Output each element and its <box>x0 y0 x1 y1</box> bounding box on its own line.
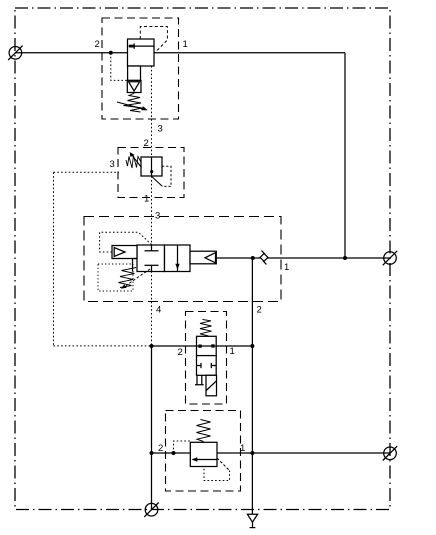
node junction comp5 pilot tap <box>172 451 176 455</box>
svg-text:3: 3 <box>110 159 115 170</box>
node junction x=345 on port 1 line <box>343 256 347 260</box>
comp5 dashed enclosure <box>166 411 241 492</box>
comp1 internal flow line <box>129 45 155 47</box>
comp3 left lower stub <box>133 259 138 272</box>
svg-text:2: 2 <box>158 443 163 454</box>
comp3 body left square <box>137 245 165 272</box>
comp2 poppet stem line through body <box>151 157 153 176</box>
measuring point diamond <box>260 251 268 265</box>
wire vertical x=151.5 down to bottom port <box>151 346 153 510</box>
comp1 stem box <box>128 66 141 80</box>
tank arrow bottom x=252.4 (open triangle down) <box>247 514 257 522</box>
node junction x=252.4 on port 1 line <box>251 256 255 260</box>
svg-text:4: 4 <box>156 305 161 316</box>
comp3 body right square <box>165 245 191 272</box>
comp3 spring arrow (dashed shaft) <box>126 269 150 286</box>
comp1 pilot dashed line (top loop) <box>140 27 167 53</box>
comp1 dashed enclosure <box>102 18 179 119</box>
svg-text:1: 1 <box>240 443 245 454</box>
comp5 right pilot dotted loop <box>217 458 230 471</box>
wire vertical x=252.4 down <box>251 258 253 514</box>
wire comp1 out to right <box>154 52 345 54</box>
node junction comp4 port 2 <box>150 344 154 348</box>
comp1 drain dotted L <box>111 53 128 80</box>
comp4 tank stub below <box>195 375 204 384</box>
wire vertical x=345 <box>344 53 346 258</box>
svg-text:2: 2 <box>257 305 262 316</box>
comp3 dashed enclosure <box>84 217 281 302</box>
comp2 dashed enclosure <box>118 148 184 198</box>
comp5 left pilot dotted <box>174 441 191 453</box>
comp2 pilot dashed loop right <box>162 166 171 186</box>
comp1 poppet box with triangle <box>127 80 141 92</box>
comp2 body <box>141 157 162 176</box>
comp3 top-left pilot dotted <box>100 232 152 252</box>
port (right lower) <box>383 446 397 460</box>
comp4 dashed enclosure <box>186 312 227 405</box>
comp2 diagonal link <box>152 177 162 187</box>
comp3 right pilot box with triangle <box>190 251 216 264</box>
svg-text:3: 3 <box>158 124 163 135</box>
comp4 spring top <box>200 320 212 337</box>
comp1 spring (zigzag) <box>124 93 143 112</box>
port (right upper) <box>383 251 397 265</box>
svg-text:1: 1 <box>230 346 235 357</box>
svg-text:1: 1 <box>183 39 188 50</box>
comp2 spring <box>126 156 141 169</box>
comp2 spring adjust arrow <box>132 155 142 168</box>
wire main supply P left, y=52.8 <box>15 52 128 54</box>
comp3 left square blocked T bottom <box>145 264 159 266</box>
node junction comp5 port 2 line <box>150 451 154 455</box>
dotted drain horizontal y=345.9 <box>54 345 152 347</box>
node junction on supply line at comp1 port 2 <box>109 51 113 55</box>
comp3 left pilot box with triangle <box>112 246 137 259</box>
wire y=258 to right port <box>216 257 390 259</box>
svg-text:2: 2 <box>144 138 149 149</box>
wire y=453 comp5 line <box>152 452 391 454</box>
svg-text:1: 1 <box>284 262 289 273</box>
comp1 body <box>128 39 155 66</box>
comp4 seat arrows <box>198 345 201 348</box>
svg-text:2: 2 <box>178 347 183 358</box>
svg-text:1: 1 <box>144 194 149 205</box>
node junction comp4 port 1 <box>250 344 254 348</box>
dotted drain left x=53.5 <box>53 172 55 346</box>
comp3 spring dotted box <box>98 264 133 291</box>
comp4 line through body <box>197 345 217 347</box>
comp1 spring adjust arrow <box>117 102 145 109</box>
comp4 body bottom square <box>197 356 217 376</box>
wire y=346 comp4 line <box>152 345 253 347</box>
dotted pilot vertical x=151.5 from comp1 to junction <box>151 66 153 346</box>
comp3 right square flow arrow <box>177 245 179 272</box>
svg-text:3: 3 <box>155 211 160 222</box>
dotted drain horizontal y=172.3 <box>54 171 120 173</box>
node junction comp5 port 1 <box>250 451 254 455</box>
svg-text:2: 2 <box>95 39 100 50</box>
comp2 seat dot <box>150 170 153 173</box>
comp3 spring <box>119 268 137 288</box>
comp1 internal arrow seat <box>129 45 134 48</box>
comp4 body top square <box>197 336 217 355</box>
comp4 bottom square stubs <box>197 363 202 368</box>
comp5 spring <box>197 420 211 442</box>
comp4 solenoid <box>206 375 217 396</box>
comp3 left square blocked T top <box>151 245 153 251</box>
comp5 body <box>190 442 217 466</box>
port (bottom) <box>144 503 158 517</box>
comp5 internal line + arrow <box>194 459 218 461</box>
port P (left, circle with slash) <box>8 46 22 60</box>
